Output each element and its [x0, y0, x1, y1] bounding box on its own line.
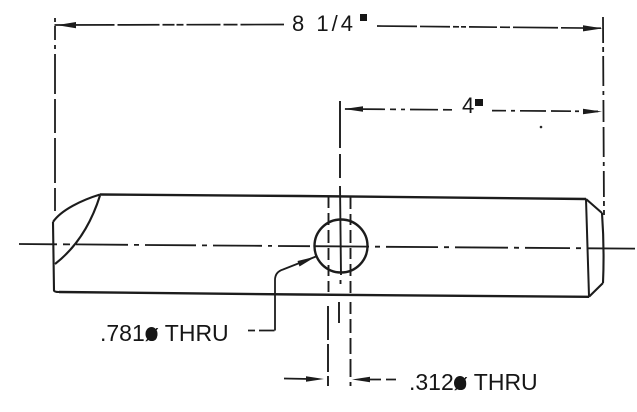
right chamfer line: [586, 199, 589, 296]
inch mark blob (8 1/4): [360, 14, 367, 21]
hidden hole line left: [328, 197, 330, 295]
extension line left (.312 dim): [327, 306, 329, 386]
rod bottom edge: [59, 292, 589, 297]
dim line .312 right with arrow: [366, 379, 396, 381]
scan speck: [540, 126, 543, 129]
hidden hole line right: [350, 197, 352, 295]
leader line (.781 hole): [248, 330, 275, 332]
arrowhead .312 right: [352, 377, 370, 382]
dimension line 8 1/4 left segment: [55, 24, 285, 27]
dimension line 8 1/4 right segment: [377, 26, 602, 28]
right tip edge: [602, 213, 604, 283]
dimension line 4 left segment: [345, 108, 452, 111]
extension line right (8 1/4 dim): [603, 17, 604, 215]
right tip top diagonal: [586, 199, 602, 213]
arrowhead right (8 1/4): [583, 25, 603, 31]
arrowhead .312 left: [306, 376, 324, 381]
extension line left (8 1/4 dim): [54, 18, 56, 211]
left chamfer outer curve: [53, 195, 100, 223]
svg-text:8 1/4: 8 1/4: [292, 11, 356, 36]
leader arrowhead (.781): [298, 257, 317, 267]
dimension line 4 right segment: [492, 110, 600, 113]
svg-text:.781ø THRU: .781ø THRU: [100, 320, 229, 346]
diameter symbol blob (.781): [146, 327, 158, 341]
horizontal centerline: [19, 244, 635, 249]
hole circle: [315, 220, 368, 273]
svg-text:4: 4: [462, 93, 474, 118]
left chamfer inner curve: [55, 196, 100, 265]
arrowhead right (4 dim): [583, 109, 602, 114]
vertical hole centerline: [339, 101, 341, 323]
arrowhead left (4 dim): [344, 106, 363, 111]
dim line .312 left with arrow: [284, 378, 310, 381]
right tip bottom diagonal: [589, 283, 603, 297]
svg-text:.312ø THRU: .312ø THRU: [409, 369, 538, 395]
rod left edge: [53, 222, 59, 292]
leader bend and arrow shaft (.781): [275, 257, 316, 331]
inch mark blob (4): [475, 99, 483, 106]
extension line right (.312 dim): [350, 302, 352, 386]
diameter symbol blob (.312): [454, 376, 466, 390]
rod top edge: [100, 195, 586, 200]
arrowhead left (8 1/4): [57, 22, 76, 28]
